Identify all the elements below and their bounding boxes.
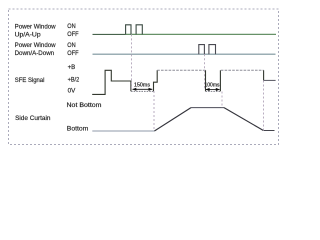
wire side curtain bottom left [92, 130, 154, 132]
svg-text:Side Curtain: Side Curtain [15, 115, 51, 122]
wire SFE +B plateau dashed 2 [221, 69, 264, 71]
svg-text:Bottom: Bottom [67, 125, 89, 132]
wire SFE end fall to +B/2 [263, 70, 265, 80]
svg-text:0V: 0V [68, 88, 77, 95]
pulses row1 up signal [126, 25, 143, 35]
border dashed frame [9, 9, 279, 145]
svg-text:Down/A-Down: Down/A-Down [15, 50, 55, 57]
svg-text:OFF: OFF [67, 50, 78, 57]
wire SFE dip fall [205, 70, 207, 91]
arrow 100ms double-headed [206, 88, 220, 91]
wire side curtain rise diagonal [154, 108, 191, 131]
wire SFE 0V dotted segment 100ms [206, 90, 221, 92]
svg-text:SFE Signal: SFE Signal [15, 77, 45, 84]
wire SFE solid left part [92, 70, 131, 94]
wire SFE 0V dotted segment 150ms [131, 90, 154, 92]
wire side curtain plateau [191, 107, 224, 109]
wire SFE +B plateau dashed 1 [157, 69, 205, 71]
node dashed vertical 4 (x=154) [153, 91, 155, 131]
wire SFE +B/2 tail [264, 79, 276, 81]
svg-text:Power Window: Power Window [15, 23, 57, 30]
node dashed vertical 3 (x=263.5) [263, 81, 265, 131]
wire row1 OFF baseline left stub [93, 33, 126, 35]
svg-text:+B/2: +B/2 [68, 77, 80, 84]
pulses row2 down signal [199, 45, 216, 55]
svg-text:100ms: 100ms [205, 83, 220, 89]
svg-text:150ms: 150ms [134, 82, 151, 88]
svg-text:Power Window: Power Window [15, 42, 57, 49]
svg-text:+B: +B [68, 64, 76, 71]
svg-text:ON: ON [67, 42, 75, 49]
svg-text:Not Bottom: Not Bottom [67, 102, 102, 109]
svg-text:ON: ON [67, 23, 75, 30]
wire side curtain fall diagonal [224, 108, 263, 131]
wire row2 OFF baseline [93, 53, 276, 55]
wire row1 OFF baseline [126, 33, 276, 35]
wire SFE step up after 150ms [154, 70, 158, 91]
svg-text:OFF: OFF [67, 31, 78, 38]
wire side curtain bottom right [263, 130, 274, 132]
arrow 150ms double-headed [132, 88, 152, 91]
node dashed vertical 5 (x=222) [221, 92, 223, 108]
wire SFE dip rise [219, 70, 221, 91]
svg-text:Up/A-Up: Up/A-Up [15, 32, 42, 39]
node dashed vertical 1 (x=131.5) [131, 34, 133, 88]
node dashed vertical 2 (x=204.5) [204, 54, 206, 88]
